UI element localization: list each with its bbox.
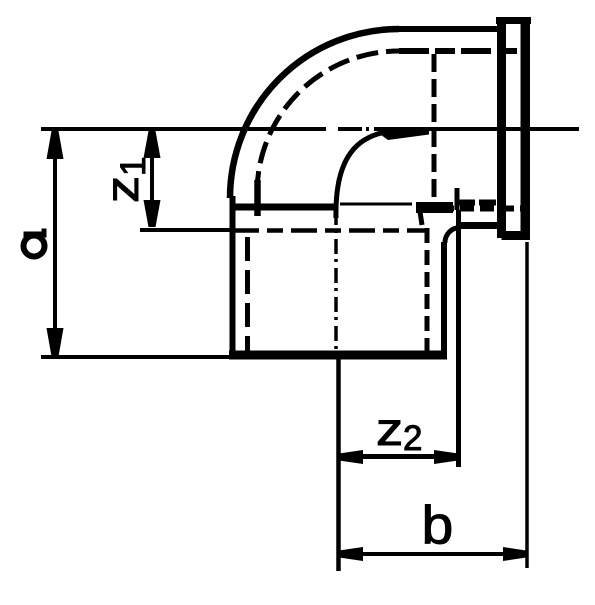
- svg-text:b: b: [422, 495, 454, 555]
- svg-text:z: z: [376, 403, 403, 455]
- svg-text:z: z: [96, 176, 148, 203]
- svg-text:2: 2: [403, 419, 422, 458]
- svg-text:1: 1: [114, 157, 153, 176]
